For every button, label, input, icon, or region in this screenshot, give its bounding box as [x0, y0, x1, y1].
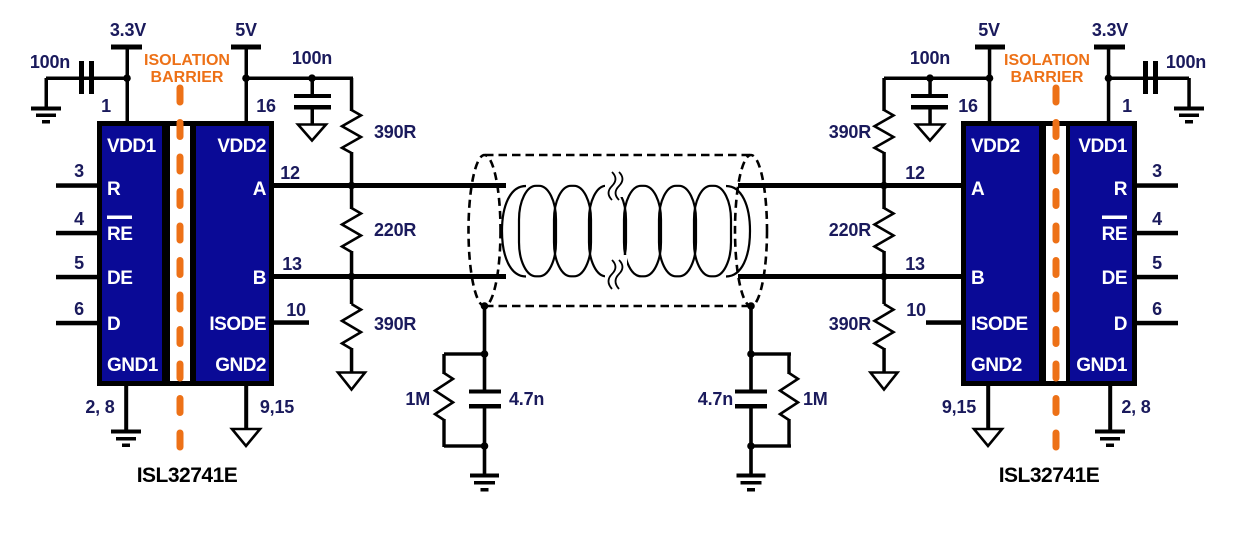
node A1: 3.3V / C1 / pin1 junction [123, 74, 131, 82]
ground (signal triangle, GND2 right IC) [974, 429, 1002, 446]
node: C5 top junction [926, 74, 934, 82]
ground (signal triangle, below R8) [871, 373, 898, 390]
resistor R1 390R (left bias to 5V) [342, 110, 361, 153]
resistor R7 220R (right termination) [875, 208, 894, 252]
pin 6 stub (right IC D) [1137, 321, 1178, 326]
ground (earth, GND1 left IC) [111, 430, 141, 448]
svg-text:ISL32741E: ISL32741E [137, 464, 238, 487]
svg-text:16: 16 [256, 96, 276, 116]
capacitor C1 100n (left decoupling) [30, 52, 94, 94]
capacitor C6 100n (right decoupling) [1143, 52, 1206, 94]
svg-text:3: 3 [1152, 161, 1162, 181]
svg-text:DE: DE [107, 268, 132, 289]
cable break squiggles (bottom) [609, 260, 616, 289]
node: 3.3V / C6 / pin1 junction (right) [1105, 74, 1113, 82]
svg-text:ISOLATION: ISOLATION [144, 52, 230, 69]
resistor R4 1M (left shield bleed) [435, 373, 453, 420]
cable shield end (right dashed ellipse) [735, 155, 767, 306]
svg-text:6: 6 [1152, 299, 1162, 319]
svg-text:VDD1: VDD1 [107, 136, 157, 157]
pin 4 stub (right IC RE) [1137, 231, 1178, 236]
svg-text:VDD2: VDD2 [217, 136, 266, 157]
wire: bus line B (right, cable to pin 13) [738, 274, 961, 279]
svg-text:390R: 390R [374, 314, 416, 334]
twisted pair loops [519, 186, 731, 276]
wire: bus line A (left, pin 12 to cable) [274, 183, 506, 188]
capacitor C3 4.7n (left shield) [469, 389, 544, 409]
wire: node A to R7 [882, 186, 886, 209]
svg-text:3: 3 [74, 161, 84, 181]
svg-text:GND1: GND1 [107, 355, 159, 376]
node: A / R1 / R2 junction [348, 182, 356, 190]
node: R4/C3 top [481, 350, 489, 358]
wire: R8 to ground [882, 348, 886, 373]
ground (signal triangle, below R3) [338, 373, 365, 390]
pin 2,8 GND1 wire (left IC) [124, 386, 128, 430]
svg-text:GND1: GND1 [1076, 355, 1128, 376]
wire: node VDD1-left to cap C1 [46, 77, 127, 81]
svg-text:5: 5 [1152, 253, 1162, 273]
IC U1 ISL32741E (left transceiver) [97, 121, 274, 386]
svg-text:10: 10 [286, 300, 306, 320]
wire: R6 to node A (right) [882, 152, 886, 184]
svg-text:A: A [971, 179, 985, 200]
wire: C3 down to ground [483, 408, 487, 474]
node: R4/C3 bottom [481, 442, 489, 450]
node: B / R2 / R3 junction [348, 273, 356, 281]
wire: C1 to ground [45, 78, 49, 108]
node: 5V / pin16 junction (right) [986, 74, 994, 82]
pin 5 stub (right IC DE) [1137, 275, 1178, 280]
node: R5/C4 bottom [747, 442, 755, 450]
svg-text:VDD1: VDD1 [1078, 136, 1128, 157]
wire: C6 to ground [1187, 78, 1191, 108]
wire: C4 down to ground [749, 408, 753, 474]
twisted pair loop entry (left half loop) [502, 186, 526, 277]
wire: top rail down to R1 [350, 78, 354, 111]
wire: R4 to bottom link [442, 419, 445, 447]
resistor R2 220R (left termination) [342, 208, 361, 252]
ground (signal triangle, below C2) [298, 125, 326, 141]
svg-text:12: 12 [905, 163, 925, 183]
svg-text:5V: 5V [235, 20, 257, 40]
wire: bus line A (right, cable to pin 12) [738, 183, 961, 188]
svg-text:390R: 390R [829, 314, 871, 334]
svg-text:13: 13 [905, 254, 925, 274]
svg-text:4: 4 [74, 209, 84, 229]
cable break squiggles (top) [609, 172, 616, 200]
svg-text:GND2: GND2 [971, 355, 1022, 376]
svg-text:ISODE: ISODE [209, 314, 266, 335]
svg-text:VDD2: VDD2 [971, 136, 1020, 157]
svg-text:390R: 390R [374, 122, 416, 142]
svg-text:220R: 220R [829, 220, 871, 240]
3.3V supply rail (right) [1092, 20, 1128, 121]
5V supply rail (right) [975, 20, 1005, 121]
wire: R5 to bottom link [787, 419, 790, 447]
svg-text:2, 8: 2, 8 [85, 397, 114, 417]
wire: R3 to ground [350, 348, 354, 373]
svg-text:ISOLATION: ISOLATION [1004, 52, 1090, 69]
wire: 5V node to right 390R chain top [884, 77, 990, 81]
twisted pair loop exit (right half loop) [726, 186, 750, 277]
cable shield (dashed rectangle) [485, 155, 751, 306]
wire: top rail down to R6 [882, 78, 886, 111]
isolation barrier (left, orange dashed) [144, 52, 230, 447]
wire: down to R5 [787, 354, 790, 374]
pin 2,8 GND1 wire (right IC) [1108, 386, 1112, 430]
resistor R6 390R (right bias to 5V) [875, 110, 894, 153]
svg-text:1: 1 [101, 96, 111, 116]
wire: R1 to node A [350, 152, 354, 184]
svg-text:GND2: GND2 [215, 355, 266, 376]
pin 10 stub (left IC ISODE) [274, 320, 309, 325]
svg-text:ISL32741E: ISL32741E [999, 464, 1100, 487]
svg-text:6: 6 [74, 299, 84, 319]
svg-text:D: D [1114, 314, 1127, 335]
svg-text:1M: 1M [405, 389, 430, 409]
svg-text:1: 1 [1122, 96, 1132, 116]
svg-text:4.7n: 4.7n [698, 389, 733, 409]
svg-text:RE: RE [107, 224, 132, 245]
ground (earth, below C1) [31, 107, 61, 124]
node: B / R7 / R8 junction (right) [880, 273, 888, 281]
ground (earth, below C6) [1174, 107, 1204, 124]
capacitor C2 100n (5V decoupling, left) [292, 48, 332, 125]
wire: bus line B (left, pin 13 to cable) [274, 274, 506, 279]
svg-text:2, 8: 2, 8 [1121, 397, 1150, 417]
pin 3 stub (right IC R) [1137, 183, 1178, 188]
3.3V supply rail (left) [110, 20, 146, 121]
svg-text:A: A [253, 179, 267, 200]
wire: node B to R3 [350, 277, 354, 304]
ground (signal triangle, below C5) [916, 125, 944, 141]
svg-text:4.7n: 4.7n [509, 389, 544, 409]
svg-text:16: 16 [958, 96, 978, 116]
pin 5 stub (left IC DE) [56, 275, 97, 280]
pin 9,15 GND2 wire (right IC) [986, 386, 990, 429]
resistor R5 1M (right shield bleed) [780, 373, 798, 420]
wire: node B to R8 [882, 277, 886, 304]
IC U2 ISL32741E (right transceiver) [961, 121, 1137, 386]
svg-text:D: D [107, 314, 120, 335]
wire: bottom link to main [444, 444, 484, 447]
node: left shield tap [481, 302, 489, 310]
wire: bottom link to main [751, 444, 791, 447]
node: right shield tap [747, 302, 755, 310]
svg-text:3.3V: 3.3V [110, 20, 146, 40]
svg-text:BARRIER: BARRIER [151, 69, 224, 86]
ground (signal triangle, GND2 left IC) [232, 429, 260, 446]
ground (earth, right shield) [737, 474, 766, 492]
node: C2 top junction [308, 74, 316, 82]
svg-text:BARRIER: BARRIER [1011, 69, 1084, 86]
svg-text:RE: RE [1102, 224, 1127, 245]
node: R5/C4 top [747, 350, 755, 358]
node A2: 5V / pin16 junction [242, 74, 250, 82]
svg-text:100n: 100n [910, 48, 950, 68]
svg-text:9,15: 9,15 [942, 397, 976, 417]
node: A / R6 / R7 junction (right) [880, 182, 888, 190]
capacitor C5 100n (5V decoupling, right) [910, 48, 950, 125]
svg-text:B: B [971, 268, 984, 289]
svg-text:5V: 5V [978, 20, 1000, 40]
svg-text:100n: 100n [30, 52, 70, 72]
svg-text:B: B [253, 268, 266, 289]
pin 10 stub (right IC ISODE) [926, 320, 961, 325]
pin 3 stub (left IC R) [56, 183, 97, 188]
cable break mask (bottom) [605, 255, 627, 288]
pin 4 stub (left IC RE) [56, 231, 97, 236]
svg-text:DE: DE [1102, 268, 1127, 289]
svg-text:12: 12 [280, 163, 300, 183]
wire: R2 to node B [350, 251, 354, 276]
5V supply rail (left) [231, 20, 261, 121]
wire: top link to R5 [751, 352, 791, 355]
isolation barrier (right, orange dashed) [1004, 52, 1090, 447]
svg-text:5: 5 [74, 253, 84, 273]
cable break mask (top) [605, 166, 627, 197]
pin 9,15 GND2 wire (left IC) [244, 386, 248, 429]
svg-text:9,15: 9,15 [260, 397, 294, 417]
svg-text:100n: 100n [292, 48, 332, 68]
wire: node to cap C6 [1108, 77, 1189, 81]
svg-text:R: R [107, 179, 121, 200]
capacitor C4 4.7n (right shield) [698, 389, 767, 409]
svg-text:3.3V: 3.3V [1092, 20, 1128, 40]
wire: 5V node to 390R chain top [246, 77, 353, 81]
resistor R8 390R (right bias to gnd) [875, 304, 894, 349]
svg-text:ISODE: ISODE [971, 314, 1028, 335]
svg-text:220R: 220R [374, 220, 416, 240]
wire: top link to R4 [444, 352, 484, 355]
svg-text:R: R [1114, 179, 1128, 200]
wire: down to R4 [442, 354, 445, 374]
wire: node A to R2 [350, 186, 354, 209]
ground (earth, GND1 right IC) [1095, 430, 1125, 448]
resistor R3 390R (left bias to gnd) [342, 304, 361, 349]
cable shield end (left dashed ellipse) [469, 155, 501, 306]
svg-text:100n: 100n [1166, 52, 1206, 72]
ground (earth, left shield) [470, 474, 499, 492]
wire: R7 to node B (right) [882, 251, 886, 276]
pin 6 stub (left IC D) [56, 321, 97, 326]
wire: shield tap down to C3 [483, 306, 487, 391]
wire: shield tap down to C4 [749, 306, 753, 391]
svg-text:13: 13 [282, 254, 302, 274]
svg-text:1M: 1M [803, 389, 828, 409]
svg-text:10: 10 [906, 300, 926, 320]
svg-text:4: 4 [1152, 209, 1162, 229]
svg-text:390R: 390R [829, 122, 871, 142]
